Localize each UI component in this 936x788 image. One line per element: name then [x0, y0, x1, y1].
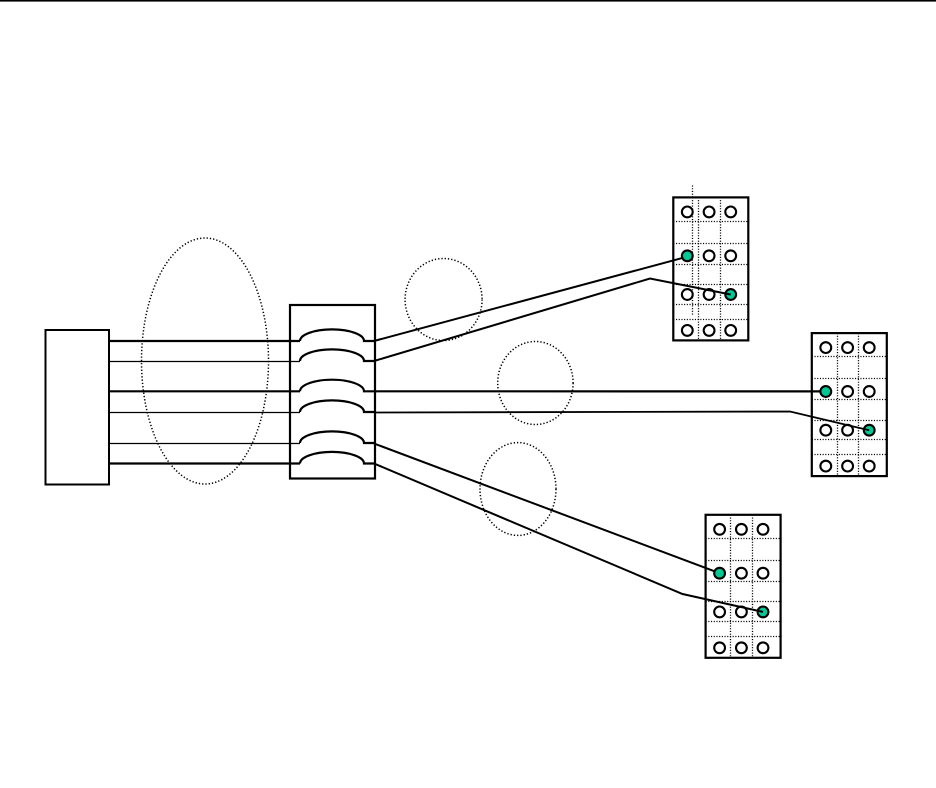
connector J2 wired pin row3 col3: [864, 425, 875, 436]
connector J3: [706, 515, 781, 658]
wire 1 exit run: [374, 258, 683, 341]
wire 3 exit run: [374, 390, 821, 392]
cable bundle ellipse: [142, 238, 269, 484]
connector J1 wired pin row3 col3: [725, 289, 736, 300]
connector J2 wired pin row2 col1: [820, 386, 831, 397]
top border bar: [0, 0, 936, 2]
hook 3: [300, 380, 375, 392]
connector J1 body: [673, 197, 748, 340]
hook 1: [300, 329, 375, 341]
connector J2: [812, 333, 887, 476]
connector J2 body: [812, 333, 887, 476]
connector J1 dotted grid: [698, 197, 700, 340]
wire 2: [109, 361, 300, 363]
hook 2: [300, 349, 375, 361]
connector J2 open pins: [820, 342, 831, 353]
wire 4: [109, 412, 300, 414]
connector J1: [673, 197, 748, 340]
splice group circle bottom: [480, 443, 556, 536]
connector J1 wired pin row2 col1: [682, 250, 693, 261]
left device box: [46, 330, 110, 485]
connector J3 body: [706, 515, 781, 658]
wire 6 exit run: [374, 464, 763, 612]
splice group circle middle: [498, 342, 573, 425]
hook 6: [300, 452, 375, 464]
wire 5: [109, 443, 300, 445]
connector J3 wired pin row3 col3: [758, 607, 769, 618]
hook 5: [300, 431, 375, 443]
connector J3 open pins: [714, 524, 725, 535]
splice group circle top: [405, 259, 482, 341]
wire 3: [109, 390, 300, 392]
connector J3 dotted grid: [730, 515, 732, 658]
guide dotted line above connector J1: [692, 186, 694, 316]
splice block: [290, 305, 375, 479]
hook 4: [300, 400, 375, 412]
connector J3 wired pin row2 col1: [714, 568, 725, 579]
wire 4 exit run: [374, 412, 869, 431]
wire 2 exit run: [374, 279, 731, 362]
connector J2 dotted grid: [837, 333, 839, 476]
wire 1: [109, 340, 300, 342]
wire 6: [109, 462, 300, 464]
wire 5 exit run: [374, 444, 715, 572]
connector J1 open pins: [682, 207, 693, 218]
